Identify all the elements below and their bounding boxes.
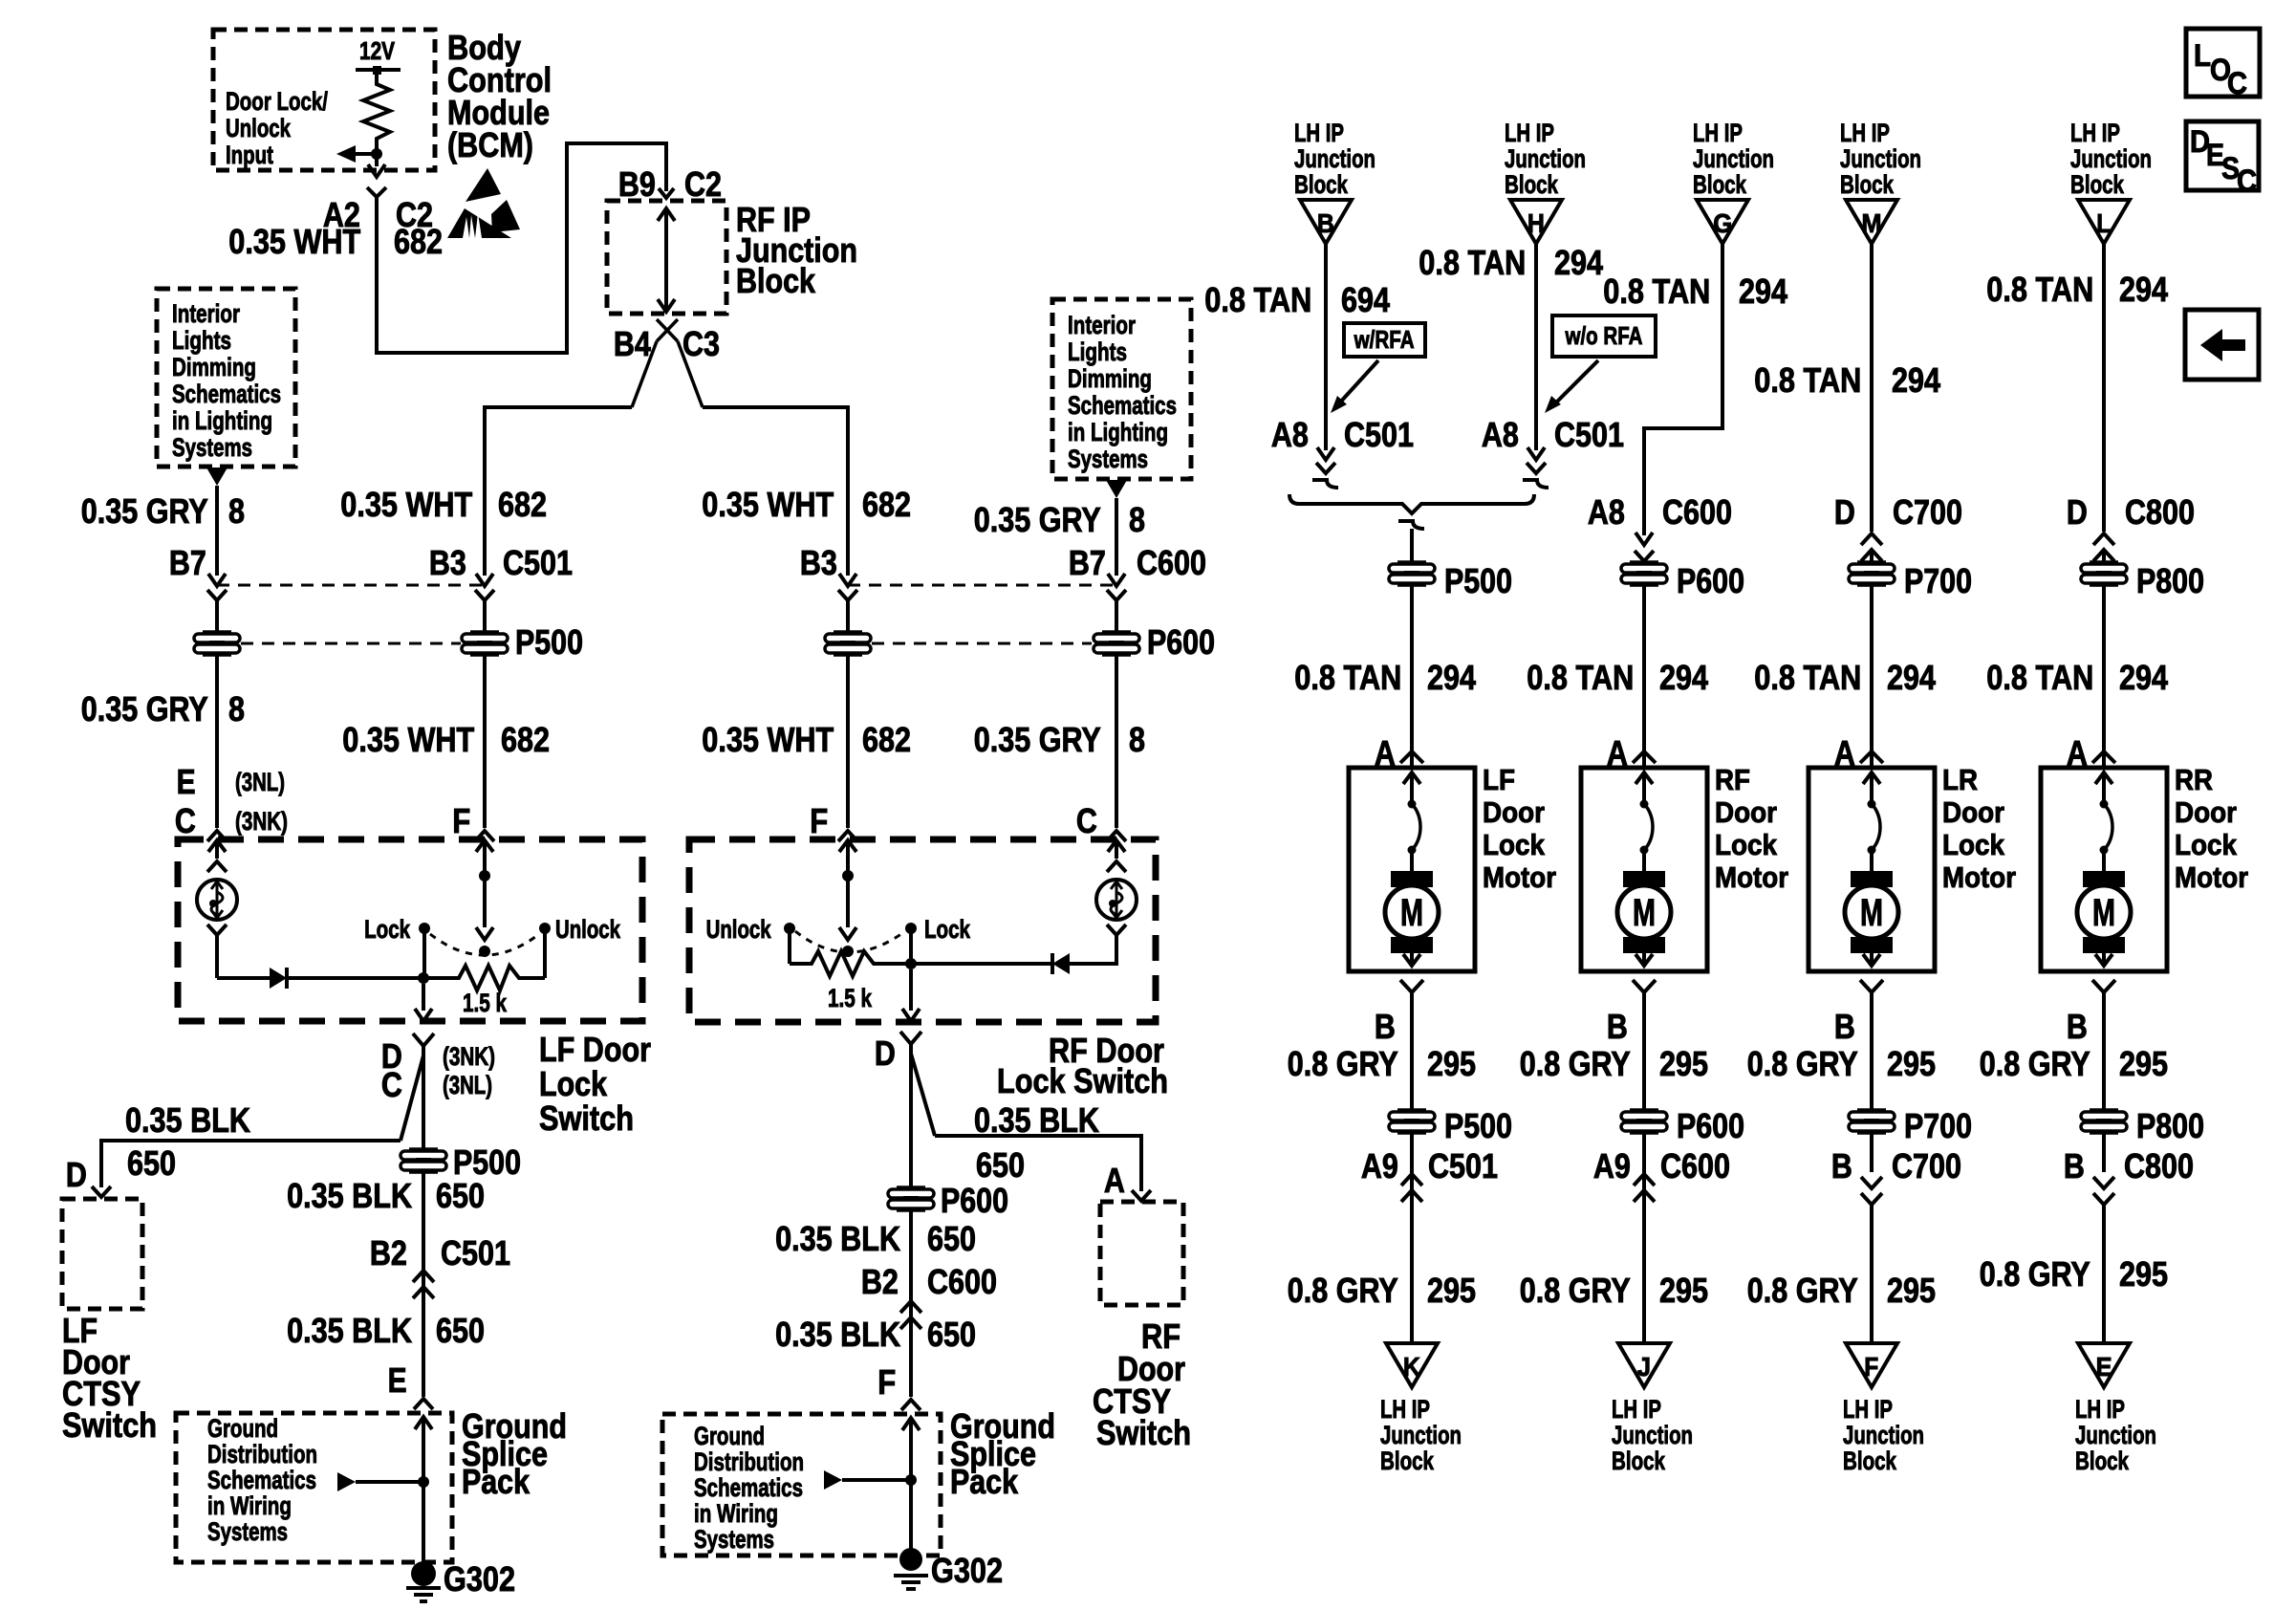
svg-text:0.8 TAN: 0.8 TAN: [1603, 272, 1710, 311]
svg-text:0.35 GRY: 0.35 GRY: [81, 491, 208, 531]
grommet P600 (lower row): [1630, 1108, 1658, 1112]
wire grommet to chev col1: [1410, 1132, 1414, 1190]
grommet P600 mid a: [834, 630, 862, 634]
connector C600 B2 chevrons: [900, 1301, 921, 1313]
wire to bottom triangle (col2): [1642, 1190, 1646, 1343]
wire dimming to connector B7: [215, 486, 219, 576]
wire P600 to motor: [1642, 584, 1646, 768]
svg-text:M: M: [1400, 892, 1423, 934]
connector A8 C600 chevrons: [1635, 533, 1653, 545]
svg-text:E: E: [388, 1360, 407, 1400]
connector chevron RF C entry: [1107, 831, 1126, 841]
connector Y below lamp: [207, 925, 227, 935]
svg-text:Schematics: Schematics: [1068, 391, 1177, 420]
svg-text:in Lighting: in Lighting: [172, 406, 272, 435]
wire dashed connector link C501: [217, 584, 485, 587]
svg-text:A9: A9: [1361, 1146, 1398, 1186]
svg-text:0.35 BLK: 0.35 BLK: [775, 1315, 900, 1354]
svg-text:Dimming: Dimming: [1068, 364, 1152, 393]
svg-text:in Lighting: in Lighting: [1068, 418, 1168, 446]
svg-text:Door Lock/: Door Lock/: [226, 87, 328, 116]
svg-text:P500: P500: [1444, 561, 1512, 600]
svg-text:D: D: [2067, 492, 2088, 532]
svg-text:M: M: [1862, 208, 1882, 238]
svg-text:C: C: [381, 1065, 402, 1104]
svg-text:w/o RFA: w/o RFA: [1565, 321, 1643, 350]
connector D C700 chevrons: [1861, 533, 1882, 545]
svg-text:Schematics: Schematics: [207, 1466, 316, 1494]
wire motor B down (col1): [1410, 1002, 1414, 1111]
wire fan right diagonal: [678, 341, 703, 407]
wire grommet to chev col2: [1642, 1132, 1646, 1190]
svg-text:0.8 GRY: 0.8 GRY: [1980, 1254, 2090, 1294]
switch motor contact (col4): [2100, 800, 2109, 809]
svg-text:F: F: [810, 801, 828, 840]
arrow pin F inside RF: [839, 840, 856, 852]
wire L to C800: [2102, 244, 2106, 532]
node RF Unlock contact: [784, 923, 795, 934]
motor RF Door Lock Motor box: [1581, 768, 1707, 971]
note w/o RFA box: [1552, 315, 1656, 357]
svg-text:w/RFA: w/RFA: [1354, 325, 1415, 354]
motor M1 symbol: [1391, 871, 1433, 887]
svg-text:294: 294: [1554, 243, 1603, 282]
svg-text:C501: C501: [1554, 415, 1624, 454]
svg-text:Block: Block: [1505, 170, 1559, 199]
connector triangle J: [1618, 1343, 1670, 1387]
wire P500 to motor: [1410, 584, 1414, 768]
svg-text:650: 650: [976, 1145, 1025, 1185]
wire to RF CTSY switch: [935, 1136, 1141, 1191]
wire lamp to diode: [217, 976, 270, 980]
connector chevron ctsy R: [1132, 1190, 1151, 1201]
connector chevron RF F entry: [838, 831, 857, 841]
connector Y below motor (col1): [1400, 980, 1423, 992]
arrow w/o RFA pointer: [1554, 360, 1598, 404]
connector chevron A (col3): [1860, 751, 1883, 763]
connector D C800 chevrons: [2093, 533, 2114, 545]
wire to RF switch F: [703, 407, 848, 576]
svg-text:B7: B7: [1069, 543, 1106, 582]
wire Unlock contact down: [543, 928, 547, 978]
svg-text:0.8 GRY: 0.8 GRY: [1747, 1271, 1858, 1310]
node F common dot: [479, 870, 490, 881]
connector Y below LF box: [413, 1033, 434, 1046]
node resistor junction: [418, 972, 429, 984]
svg-text:LH IP: LH IP: [1505, 119, 1554, 147]
wire RF common to wiper: [846, 876, 850, 927]
connector Y below motor (col4): [2092, 980, 2115, 992]
wire RF branch diagonal to CTSY: [911, 1054, 935, 1136]
node splice junction (left): [418, 1476, 429, 1488]
arrow output D pin: [422, 984, 425, 1011]
svg-text:682: 682: [501, 720, 550, 759]
motor M3 symbol: [1851, 871, 1893, 887]
svg-text:Lock: Lock: [2175, 828, 2238, 861]
svg-text:A9: A9: [1593, 1146, 1631, 1186]
svg-text:Block: Block: [1380, 1447, 1435, 1475]
svg-text:(BCM): (BCM): [447, 125, 533, 164]
motor M2 symbol: [1623, 871, 1665, 887]
wire P700 to motor: [1870, 584, 1874, 768]
grommet P500 left a: [203, 630, 231, 634]
connector triangle K: [1386, 1343, 1438, 1387]
svg-text:G302: G302: [931, 1551, 1003, 1590]
svg-text:C: C: [2237, 163, 2257, 198]
wire B7 to grommet: [215, 600, 219, 633]
svg-text:Lock: Lock: [924, 915, 971, 944]
arrow pin A inside (col3): [1863, 772, 1880, 784]
wire diode to lamp RF: [1070, 939, 1116, 964]
module U1 Body Control Module (BCM) dashed outline: [213, 30, 435, 170]
connector triangle M: [1846, 200, 1897, 244]
svg-text:Junction: Junction: [1294, 144, 1375, 173]
svg-text:Lock: Lock: [1715, 828, 1778, 861]
svg-text:0.35 GRY: 0.35 GRY: [974, 500, 1101, 539]
svg-text:0.35 WHT: 0.35 WHT: [702, 720, 834, 759]
splice hook (H): [1523, 480, 1549, 488]
svg-text:A: A: [1104, 1161, 1125, 1200]
connector C600 B7 arrow: [1108, 574, 1125, 586]
svg-text:C700: C700: [1892, 1146, 1961, 1186]
svg-text:M: M: [1860, 892, 1883, 934]
switch motor contact (col2): [1640, 800, 1649, 809]
svg-text:LH IP: LH IP: [1612, 1395, 1661, 1424]
svg-text:0.35 BLK: 0.35 BLK: [775, 1219, 900, 1258]
wire dashed grommet link r: [872, 642, 1092, 645]
svg-text:G302: G302: [444, 1559, 515, 1599]
node BCM input junction: [371, 148, 382, 160]
svg-text:294: 294: [1427, 658, 1476, 697]
resistor R2 1.5k LF: [423, 966, 545, 990]
svg-text:(3NK): (3NK): [235, 807, 288, 836]
connector Y below RF lamp: [1107, 925, 1126, 935]
svg-text:295: 295: [1427, 1271, 1476, 1310]
svg-text:E: E: [2096, 1352, 2112, 1382]
svg-text:C501: C501: [441, 1233, 510, 1273]
svg-text:LH IP: LH IP: [1843, 1395, 1893, 1424]
svg-text:650: 650: [436, 1311, 485, 1350]
wire D pin down: [422, 1055, 425, 1150]
wire dimming to B7 right: [1115, 498, 1118, 576]
connector chevron F splice: [901, 1400, 921, 1410]
wire internal double arrow: [664, 208, 668, 310]
connector C501 B2 chevrons: [413, 1271, 434, 1282]
wire B2 to E pin: [422, 1287, 425, 1397]
arrow pin F inside: [476, 840, 493, 852]
svg-text:F: F: [1864, 1352, 1878, 1382]
node RF resistor junction: [905, 958, 917, 969]
svg-text:Lock: Lock: [1483, 828, 1546, 861]
svg-text:295: 295: [1659, 1044, 1708, 1083]
svg-text:M: M: [2092, 892, 2115, 934]
svg-text:LF: LF: [1483, 763, 1515, 796]
svg-text:F: F: [877, 1362, 896, 1402]
switch LF Door Lock Switch dashed box: [178, 839, 642, 1021]
node RF Lock contact: [905, 923, 917, 934]
arrow pin C inside RF: [1108, 840, 1125, 852]
svg-text:Lights: Lights: [172, 326, 231, 355]
note w/RFA box: [1344, 323, 1425, 357]
svg-text:0.35 BLK: 0.35 BLK: [125, 1100, 250, 1140]
svg-text:P500: P500: [1444, 1106, 1512, 1145]
legend DESC box: [2186, 121, 2259, 190]
connector chevron A (col2): [1633, 751, 1656, 763]
svg-text:C501: C501: [1344, 415, 1414, 454]
wire diode to junction: [287, 976, 423, 980]
lamp LF switch illumination: [197, 880, 237, 920]
svg-text:LH IP: LH IP: [1693, 119, 1743, 147]
svg-text:C700: C700: [1893, 492, 1962, 532]
svg-text:P700: P700: [1904, 1106, 1972, 1145]
svg-text:Motor: Motor: [1942, 860, 2016, 894]
svg-text:0.8 GRY: 0.8 GRY: [1288, 1271, 1398, 1310]
svg-text:Door: Door: [1483, 795, 1545, 829]
arrow RF output D pin: [909, 969, 913, 1011]
connector Y below motor (col2): [1633, 980, 1656, 992]
svg-text:Interior: Interior: [1068, 311, 1136, 339]
motor RR Door Lock Motor box: [2041, 768, 2167, 971]
svg-text:0.8 TAN: 0.8 TAN: [1986, 270, 2093, 309]
splice X crossing B4/C3: [657, 319, 678, 341]
svg-text:C600: C600: [1137, 543, 1206, 582]
connector B C700 chevrons: [1861, 1177, 1882, 1188]
grommet P500 (motor row): [1397, 560, 1426, 564]
svg-text:Schematics: Schematics: [694, 1473, 803, 1502]
svg-text:K: K: [1403, 1352, 1420, 1382]
svg-text:Ground: Ground: [207, 1414, 278, 1443]
svg-text:0.8 GRY: 0.8 GRY: [1520, 1271, 1631, 1310]
svg-text:0.8 TAN: 0.8 TAN: [1419, 243, 1526, 282]
svg-text:Lock Switch: Lock Switch: [997, 1061, 1168, 1100]
legend back-arrow box: [2185, 310, 2259, 380]
svg-text:in Wiring: in Wiring: [694, 1499, 778, 1528]
connector C600 B3 arrow: [839, 574, 856, 586]
connector A8 C501 (B): [1317, 447, 1334, 460]
svg-text:Motor: Motor: [2175, 860, 2248, 894]
connector solid triangle (left dimming): [206, 468, 227, 486]
connector chevron E entry: [207, 831, 227, 841]
svg-text:C3: C3: [682, 324, 720, 363]
grommet P800 (lower row): [2090, 1108, 2118, 1112]
svg-text:Systems: Systems: [172, 433, 252, 462]
wire chevron to grommet (L): [2102, 550, 2106, 563]
brace splice merge: [1289, 494, 1534, 513]
svg-text:C600: C600: [1660, 1146, 1730, 1186]
svg-text:Pack: Pack: [462, 1462, 531, 1501]
svg-text:Pack: Pack: [950, 1462, 1019, 1501]
svg-text:Junction: Junction: [1380, 1421, 1462, 1449]
svg-text:294: 294: [1659, 658, 1708, 697]
chevron below E arrow: [207, 861, 227, 872]
arrow w/RFA pointer: [1338, 360, 1378, 404]
svg-text:0.8 TAN: 0.8 TAN: [1294, 658, 1401, 697]
svg-text:0.35 BLK: 0.35 BLK: [974, 1100, 1099, 1140]
switch RF Door CTSY Switch dashed box: [1100, 1202, 1183, 1305]
svg-text:295: 295: [2119, 1254, 2168, 1294]
svg-text:Block: Block: [2070, 170, 2125, 199]
power 12V supply bar: [356, 68, 401, 72]
svg-text:LH IP: LH IP: [1294, 119, 1344, 147]
svg-text:Junction: Junction: [1505, 144, 1586, 173]
svg-text:694: 694: [1341, 280, 1390, 319]
connector triangle L: [2078, 200, 2130, 244]
svg-text:295: 295: [1427, 1044, 1476, 1083]
svg-text:C800: C800: [2124, 1146, 2194, 1186]
svg-text:8: 8: [228, 689, 245, 729]
svg-text:Unlock: Unlock: [555, 915, 621, 944]
connector triangle G: [1697, 200, 1748, 244]
svg-text:B3: B3: [429, 543, 466, 582]
svg-text:0.8 GRY: 0.8 GRY: [1288, 1044, 1398, 1083]
wire WHT to switch F: [483, 654, 487, 828]
junction block RF IP dashed outline: [607, 201, 726, 314]
svg-text:C501: C501: [503, 543, 573, 582]
wire motor B down (col4): [2102, 1002, 2106, 1111]
grommet P700 (lower row): [1857, 1108, 1886, 1112]
svg-text:B: B: [2067, 1007, 2088, 1046]
diode D2 RF: [1052, 953, 1070, 974]
connector C501 B7 arrow: [208, 574, 226, 586]
svg-text:Junction: Junction: [1843, 1421, 1924, 1449]
svg-text:Lock: Lock: [364, 915, 411, 944]
svg-text:(3NK): (3NK): [443, 1042, 495, 1071]
svg-text:682: 682: [498, 485, 547, 524]
svg-text:Lights: Lights: [1068, 337, 1127, 366]
connector Y below motor (col3): [1860, 980, 1883, 992]
connector triangle F: [1846, 1343, 1897, 1387]
ESD sensitive device symbol: [466, 168, 501, 202]
svg-text:Systems: Systems: [1068, 445, 1148, 473]
svg-text:Input: Input: [226, 141, 273, 169]
svg-text:Distribution: Distribution: [207, 1440, 317, 1469]
svg-text:Junction: Junction: [1693, 144, 1774, 173]
wire grommet to chev col4: [2102, 1132, 2106, 1172]
svg-text:1.5 k: 1.5 k: [463, 989, 508, 1017]
svg-text:B9: B9: [618, 164, 656, 204]
grommet P600 (RF lower): [897, 1186, 925, 1189]
wire B to C501: [1324, 244, 1328, 450]
module Interior Lights Dimming reference box (left): [157, 289, 295, 467]
svg-text:C600: C600: [1662, 492, 1732, 532]
grommet P800 (motor row): [2090, 560, 2118, 564]
connector triangle E: [2078, 1343, 2130, 1387]
svg-text:(3NL): (3NL): [443, 1071, 492, 1099]
svg-text:B: B: [2064, 1146, 2085, 1186]
wire resistor to node: [375, 145, 379, 166]
switch motor contact (col3): [1868, 800, 1876, 809]
arrow pin A2 inside BCM: [368, 164, 385, 177]
svg-text:Ground: Ground: [694, 1422, 765, 1450]
lamp RF switch illumination: [1096, 880, 1137, 920]
connector C501 B3 arrow: [476, 574, 493, 586]
svg-text:D: D: [875, 1033, 896, 1073]
connector solid triangle (right dimming): [1106, 480, 1127, 498]
wire junction to diode RF: [911, 962, 1052, 966]
svg-text:8: 8: [1129, 500, 1145, 539]
wire common to wiper: [483, 876, 487, 927]
chevron below C arrow RF: [1107, 861, 1126, 872]
svg-text:P500: P500: [515, 622, 583, 662]
svg-text:0.8 GRY: 0.8 GRY: [1747, 1044, 1858, 1083]
svg-text:650: 650: [436, 1176, 485, 1215]
svg-text:A8: A8: [1588, 492, 1625, 532]
svg-text:294: 294: [2119, 658, 2168, 697]
svg-text:P600: P600: [941, 1181, 1008, 1220]
svg-text:P700: P700: [1904, 561, 1972, 600]
wire RF grommet to B2: [909, 1209, 913, 1316]
resistor R3 1.5k RF: [790, 951, 911, 976]
wire M to C700: [1870, 244, 1874, 532]
svg-text:RF: RF: [1715, 763, 1750, 796]
svg-text:Schematics: Schematics: [172, 380, 281, 408]
connector chevron ctsy L: [92, 1186, 111, 1197]
svg-text:LF Door: LF Door: [539, 1030, 651, 1069]
svg-text:0.35 WHT: 0.35 WHT: [340, 485, 472, 524]
svg-text:B: B: [1375, 1007, 1396, 1046]
svg-text:LH IP: LH IP: [1840, 119, 1890, 147]
svg-text:Interior: Interior: [172, 299, 240, 328]
svg-text:P800: P800: [2136, 561, 2204, 600]
svg-text:682: 682: [862, 485, 911, 524]
wire grommet to chev col3: [1870, 1132, 1874, 1172]
svg-text:F: F: [452, 801, 470, 840]
splice hook (B): [1312, 480, 1338, 488]
grommet P500 (lower row): [1397, 1108, 1426, 1112]
svg-text:P800: P800: [2136, 1106, 2204, 1145]
svg-text:Switch: Switch: [62, 1405, 157, 1445]
svg-text:A8: A8: [1482, 415, 1519, 454]
connector chevron A (col4): [2092, 751, 2115, 763]
connector triangle B: [1300, 200, 1352, 244]
svg-text:0.8 TAN: 0.8 TAN: [1204, 280, 1311, 319]
svg-text:B4: B4: [614, 324, 651, 363]
svg-text:Block: Block: [2075, 1447, 2130, 1475]
svg-text:A8: A8: [1271, 415, 1309, 454]
svg-text:295: 295: [2119, 1044, 2168, 1083]
wire RF Lock down: [909, 928, 913, 964]
svg-text:295: 295: [1887, 1271, 1936, 1310]
svg-text:Switch: Switch: [1096, 1413, 1191, 1452]
svg-text:0.35 WHT: 0.35 WHT: [342, 720, 474, 759]
wire Lock contact down: [422, 928, 426, 976]
arrow pin A inside (col1): [1403, 772, 1420, 784]
svg-text:295: 295: [1659, 1271, 1708, 1310]
svg-text:Switch: Switch: [539, 1099, 634, 1138]
svg-text:B7: B7: [169, 543, 206, 582]
arrow pin A inside (col2): [1635, 772, 1653, 784]
svg-text:0.8 GRY: 0.8 GRY: [1520, 1044, 1631, 1083]
wire dashed grommet link: [241, 642, 461, 645]
svg-text:C600: C600: [927, 1262, 997, 1301]
svg-text:0.8 GRY: 0.8 GRY: [1980, 1044, 2090, 1083]
resistor R1 BCM pull-up: [363, 70, 390, 145]
svg-text:Motor: Motor: [1483, 860, 1556, 894]
ground G302 (left): [411, 1561, 436, 1586]
wire to LF switch F: [485, 407, 632, 576]
svg-text:Door: Door: [1715, 795, 1777, 829]
wire branch diagonal to CTSY: [401, 1055, 423, 1141]
svg-text:B3: B3: [800, 543, 837, 582]
connector A8 C501 (H): [1527, 447, 1545, 460]
grommet P600 (motor row): [1630, 560, 1658, 564]
wire to bottom triangle (col1): [1410, 1190, 1414, 1343]
svg-text:J: J: [1637, 1352, 1651, 1382]
svg-text:B2: B2: [861, 1262, 899, 1301]
legend LOC box: [2186, 29, 2260, 97]
svg-text:8: 8: [228, 491, 245, 531]
svg-text:RR: RR: [2175, 763, 2213, 796]
